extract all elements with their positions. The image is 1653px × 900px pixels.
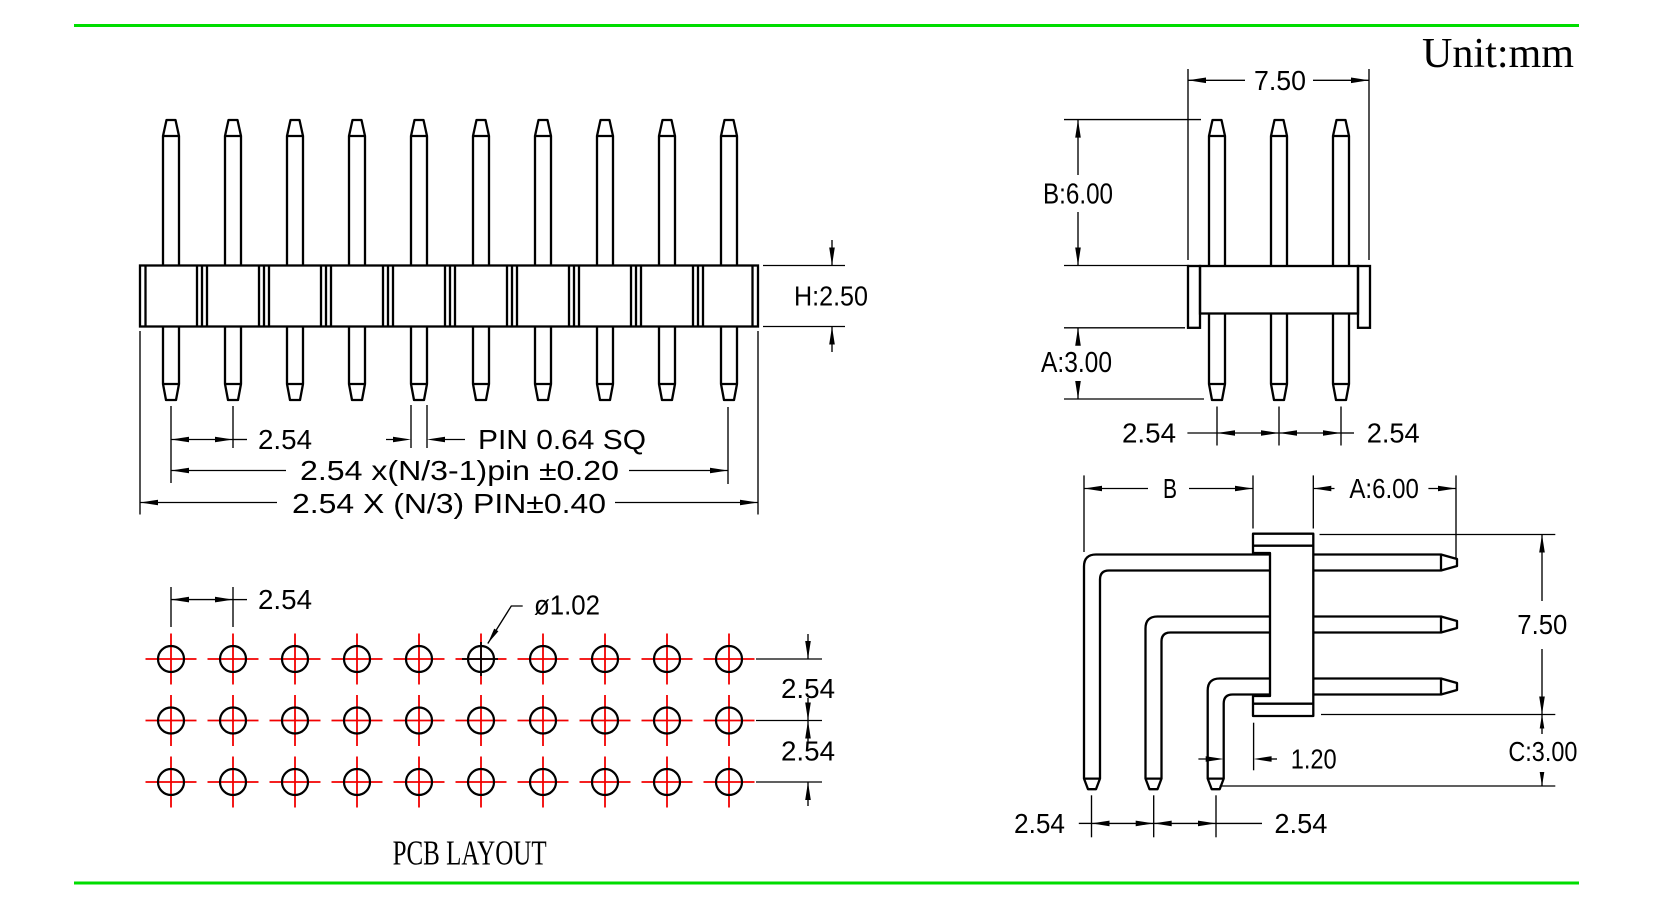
svg-text:2.54: 2.54 [258,424,312,455]
svg-text:2.54: 2.54 [781,736,835,767]
dimension C:3.00 arrows (view4) [1540,715,1545,729]
view1 pin 3 lower shaft and tip [287,327,303,401]
pcb hole row3 col3 [270,757,321,808]
callout PIN 0.64 SQ arrows [386,439,403,441]
svg-text:PIN 0.64 SQ: PIN 0.64 SQ [478,424,646,455]
green bottom border line [74,882,1579,885]
view4 flange inner line top [1253,545,1313,547]
view1 body segment boundary 5 (3 lines) [444,266,446,327]
view1 pin 1 lower shaft and tip [163,327,179,401]
view4 bent pin 3 [1208,679,1270,790]
dimension 7.50 arrows (view4) [1539,535,1545,553]
view1 pin 2 upper shaft and tip [225,120,241,266]
dimension 1.20 (view4) [1253,723,1255,771]
dimension 7.50 line (view2) [1188,78,1206,84]
dimension 2.54 X (N/3) PIN+/-0.40 line [140,500,158,506]
pcb hole row3 col6 [456,757,507,808]
pcb hole row1 col9 [642,634,693,685]
dimension B line (view4) [1084,486,1102,492]
view2 pin 2 upper shaft and tip [1271,120,1287,266]
view1 insulator body outline [140,266,758,327]
pcb hole row2 col4 [332,695,383,746]
view4 bottom extension lines [1091,795,1093,837]
view1 body chamfer line left end [144,266,146,327]
dimension B:6.00 arrows [1075,120,1081,138]
svg-text:H:2.50: H:2.50 [794,281,868,312]
dimension 7.50 extension lines (view2) [1187,69,1189,260]
view1 pin 10 lower shaft and tip [721,327,737,401]
pcb hole row3 col1 [146,757,197,808]
svg-text:2.54 x(N/3-1)pin ±0.20: 2.54 x(N/3-1)pin ±0.20 [300,455,619,486]
view2 body left end tab [1188,266,1200,328]
pcb hole row3 col9 [642,757,693,808]
dimension A:6.00 line (view4) [1313,486,1331,492]
view1 body segment boundary 7 (3 lines) [568,266,570,327]
view2 body main profile [1200,266,1358,314]
view2 pin 1 upper shaft and tip [1209,120,1225,266]
view2 pin 3 lower shaft and tip [1333,314,1349,401]
pcb hole row2 col8 [580,695,631,746]
dimension C:3.00 extension line bottom (view4) [1220,785,1556,787]
view1 body chamfer line right end [751,266,753,327]
view1 body segment boundary 2 (3 lines) [258,266,260,327]
svg-text:2.54: 2.54 [1367,418,1420,449]
view1 body segment boundary 4 (3 lines) [382,266,384,327]
view1 pin 8 lower shaft and tip [597,327,613,401]
view2 bottom extension lines pin centers [1216,407,1218,446]
view1 extension line body right [757,331,759,515]
dimension B:6.00 extension lines [1064,119,1201,121]
view1 extension line pin10 center [727,407,729,484]
dimension H:2.50 arrows [831,240,833,266]
view4 right pin 2 [1313,617,1457,633]
view1 pin 10 upper shaft and tip [721,120,737,266]
pcb hole row2 col3 [270,695,321,746]
pcb hole row3 col2 [208,757,259,808]
dimension A:3.00 arrows [1075,328,1081,346]
view1 pin 9 lower shaft and tip [659,327,675,401]
view1 body segment boundary 1 (3 lines) [196,266,198,327]
svg-text:7.50: 7.50 [1254,65,1306,96]
view1 body segment boundary 3 (3 lines) [320,266,322,327]
dimension 2.54 x(N/3-1)pin +/-0.20 line [171,468,189,474]
view1 pin 4 upper shaft and tip [349,120,365,266]
svg-text:2.54: 2.54 [258,584,312,615]
svg-text:2.54: 2.54 [1274,808,1327,839]
pcb hole row3 col4 [332,757,383,808]
pcb hole row1 col10 [704,634,755,685]
svg-text:B: B [1163,473,1177,504]
svg-text:7.50: 7.50 [1517,609,1567,640]
view4 right pin 3 [1313,679,1457,695]
view1 pin 9 upper shaft and tip [659,120,675,266]
dimension H:2.50 extension lines [763,265,845,267]
view4 flange inner line bottom [1253,703,1313,705]
view1 pin 6 lower shaft and tip [473,327,489,401]
pcb hole row1 col7 [518,634,569,685]
dimension 7.50 extension lines (view4) [1320,534,1556,536]
pcb hole row1 col3 [270,634,321,685]
pcb hole row2 col5 [394,695,445,746]
pcb hole row3 col10 [704,757,755,808]
view1 pin 5 upper shaft and tip [411,120,427,266]
dimension 2.54 pin pitch (view1) [171,437,189,443]
view1 pin 5 lower shaft and tip [411,327,427,401]
pcb right dimension extension lines [756,658,822,660]
dimension B extension lines (view4) [1083,475,1085,552]
view1 pin 7 upper shaft and tip [535,120,551,266]
pcb hole row2 col9 [642,695,693,746]
view2 pin 2 lower shaft and tip [1271,314,1287,401]
view1 extension line pin1 center [170,406,172,483]
svg-text:Unit:mm: Unit:mm [1422,31,1574,77]
view1 pin 6 upper shaft and tip [473,120,489,266]
svg-text:2.54: 2.54 [1014,808,1065,839]
pcb hole row3 col5 [394,757,445,808]
view1 pin 1 upper shaft and tip [163,120,179,266]
pcb dimension 2.54 extension lines [170,587,172,627]
dimension 2.54 2.54 line (view2 bottom) [1187,432,1217,434]
pcb dimension 2.54 line [171,597,189,603]
pcb hole row3 col7 [518,757,569,808]
pcb hole row1 col6 [456,634,507,685]
view4 right pin 1 [1313,555,1457,571]
view1 pin 3 upper shaft and tip [287,120,303,266]
pcb hole row1 col1 [146,634,197,685]
view4 bent pin 1 [1084,555,1270,790]
view2 body right end tab [1358,266,1370,328]
pcb hole row2 col6 [456,695,507,746]
svg-text:A:6.00: A:6.00 [1349,473,1419,504]
pcb hole row3 col8 [580,757,631,808]
view1 pin 8 upper shaft and tip [597,120,613,266]
view1 body segment boundary 9 (3 lines) [692,266,694,327]
hole diameter leader arrow [488,629,499,644]
pcb hole row1 col4 [332,634,383,685]
view1 pin 4 lower shaft and tip [349,327,365,401]
view4 bent pin 2 [1146,617,1271,790]
dimension A:3.00 extension lines [1064,327,1185,329]
view1 extension line body left [139,331,141,515]
pcb hole row2 col1 [146,695,197,746]
view1 extension lines pin5 sides [410,405,412,448]
pcb hole row2 col2 [208,695,259,746]
svg-text:ø1.02: ø1.02 [534,590,600,621]
svg-text:2.54: 2.54 [1122,418,1176,449]
view1 pin 2 lower shaft and tip [225,327,241,401]
svg-text:PCB LAYOUT: PCB LAYOUT [393,834,547,873]
svg-text:2.54: 2.54 [781,673,835,704]
dimension A:6.00 extension lines (view4) [1312,475,1314,528]
svg-text:B:6.00: B:6.00 [1043,178,1113,210]
pcb hole row2 col10 [704,695,755,746]
view4 body column and flanges [1253,534,1313,716]
pcb right dimension arrows [807,634,809,659]
view4 bottom dimension 2.54 2.54 line [1079,822,1092,824]
pcb hole row1 col5 [394,634,445,685]
view1 pin 7 lower shaft and tip [535,327,551,401]
svg-text:C:3.00: C:3.00 [1508,736,1577,767]
svg-text:2.54 X (N/3) PIN±0.40: 2.54 X (N/3) PIN±0.40 [292,488,606,519]
view1 body segment boundary 8 (3 lines) [630,266,632,327]
green top border line [74,24,1579,27]
svg-text:1.20: 1.20 [1291,744,1337,775]
pcb hole row1 col8 [580,634,631,685]
view1 extension line pin2 center [232,406,234,448]
svg-text:A:3.00: A:3.00 [1041,347,1112,379]
view1 body segment boundary 6 (3 lines) [506,266,508,327]
view2 pin 1 lower shaft and tip [1209,314,1225,401]
pcb hole row1 col2 [208,634,259,685]
view2 pin 3 upper shaft and tip [1333,120,1349,266]
pcb hole row2 col7 [518,695,569,746]
